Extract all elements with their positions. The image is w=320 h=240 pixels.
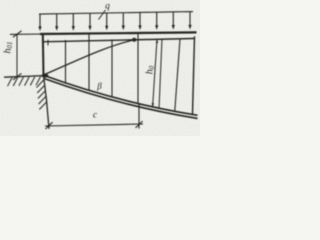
stirrup 5 — [175, 39, 180, 111]
c dimension extension line (right) — [138, 104, 140, 129]
h01 top tick — [13, 31, 22, 37]
h0 dimension line — [152, 39, 159, 107]
c right tick — [136, 121, 143, 128]
beam top chord — [40, 32, 197, 34]
ground hatching — [8, 77, 41, 87]
load arrow 10 — [188, 12, 191, 30]
bottom inclined face lower line — [45, 79, 198, 119]
load reference line — [39, 12, 193, 15]
load arrow 2 — [55, 14, 58, 31]
load arrow 9 — [172, 12, 175, 30]
c dimension line — [45, 124, 143, 126]
h01 bottom tick — [13, 73, 22, 79]
stirrup 3 — [111, 39, 113, 97]
load arrow 3 — [72, 14, 75, 31]
c left tick — [46, 122, 53, 129]
beam top chord extension (left) — [10, 33, 42, 35]
ground line — [4, 76, 44, 78]
load arrow 8 — [155, 12, 158, 30]
reinforcement axis (second line) — [42, 39, 195, 42]
h01 dimension line — [16, 34, 18, 76]
load arrow 6 — [122, 13, 125, 30]
inclined crack line — [44, 40, 134, 75]
stirrup 6 — [159, 39, 162, 109]
load arrow 7 — [138, 12, 141, 30]
load arrow 4 — [88, 13, 91, 30]
beam left edge / wall face upper — [42, 34, 45, 76]
stirrup 4 — [137, 33, 139, 103]
stirrup 1 — [65, 40, 67, 83]
load arrow 1 — [38, 14, 41, 31]
wall face hatching — [37, 80, 48, 110]
wall face lower + c extension line (left) — [44, 75, 50, 129]
bottom inclined face upper line — [44, 75, 198, 115]
paper grain — [0, 0, 1, 1]
right edge vertical — [193, 36, 195, 114]
reinforcement hook tick — [47, 40, 49, 46]
load arrow 5 — [105, 13, 108, 30]
stirrup 2 — [88, 33, 90, 90]
vertex junction — [41, 74, 48, 78]
crack end node — [132, 38, 136, 42]
q leader line — [99, 10, 106, 20]
